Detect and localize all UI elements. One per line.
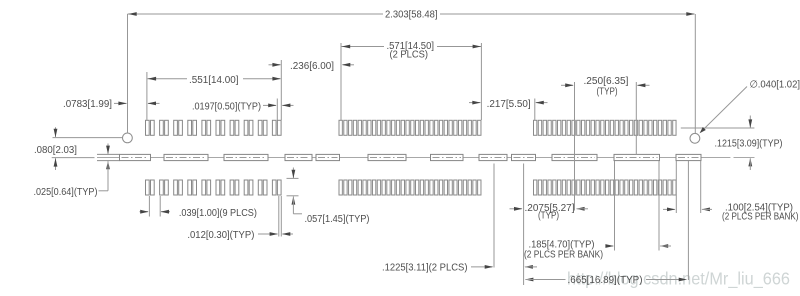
dimension .100[2.54] TYP 2 PLCS PER BANK bbox=[663, 161, 799, 223]
svg-text:.057[1.45](TYP): .057[1.45](TYP) bbox=[305, 214, 370, 225]
pad bank 3 bottom (30 pads) bbox=[534, 180, 677, 195]
wire right centerline extension bbox=[701, 157, 755, 159]
wire R9 center extension bbox=[523, 164, 525, 286]
dimension diameter .040[1.02] leader bbox=[700, 80, 800, 134]
pad bank 2 top (30 pads) bbox=[339, 120, 481, 135]
dimension .080[2.03] bbox=[34, 127, 95, 170]
svg-text:.0783[1.99]: .0783[1.99] bbox=[63, 99, 112, 110]
svg-text:.012[0.30](TYP): .012[0.30](TYP) bbox=[187, 230, 254, 241]
wire hole leader left bbox=[53, 137, 123, 139]
svg-text:.039[1.00](9 PLCS): .039[1.00](9 PLCS) bbox=[179, 208, 257, 219]
dimension .250[6.35] TYP bbox=[561, 76, 650, 210]
dimension .1215[3.09] TYP bbox=[715, 116, 783, 171]
dimension .0783[1.99] bbox=[63, 99, 160, 110]
svg-text:.236[6.00]: .236[6.00] bbox=[290, 61, 334, 72]
strip segment S6 bbox=[368, 154, 406, 160]
svg-text:.1215[3.09](TYP): .1215[3.09](TYP) bbox=[715, 139, 783, 150]
strip segment S12 bbox=[676, 154, 701, 160]
svg-text:(2 PLCS): (2 PLCS) bbox=[390, 50, 429, 61]
pad bank 3 top (30 pads) bbox=[534, 120, 677, 135]
strip segment S1 bbox=[120, 154, 151, 160]
svg-text:∅.040[1.02]: ∅.040[1.02] bbox=[750, 80, 800, 91]
dimension .1225[3.11] 2 PLCS bbox=[382, 164, 537, 274]
svg-text:.025[0.64](TYP): .025[0.64](TYP) bbox=[34, 187, 98, 198]
svg-text:.0197[0.50](TYP): .0197[0.50](TYP) bbox=[192, 102, 261, 113]
svg-text:(2 PLCS PER BANK): (2 PLCS PER BANK) bbox=[722, 212, 799, 223]
dimension .665[16.89] TYP bbox=[525, 161, 689, 286]
datum hole left bbox=[123, 133, 133, 143]
dimension .057[1.45] TYP bbox=[287, 168, 370, 226]
svg-text:(TYP): (TYP) bbox=[597, 87, 618, 98]
svg-text:.1225[3.11](2 PLCS): .1225[3.11](2 PLCS) bbox=[382, 262, 468, 273]
pad bank 1 top (10 pad pairs) bbox=[146, 120, 282, 135]
pad bank 2 bottom (30 pads) bbox=[339, 180, 481, 195]
wire strip centerline bbox=[97, 157, 700, 159]
dimension .039[1.00] 9 PLCS bbox=[140, 196, 257, 219]
strip segment S4 bbox=[285, 154, 312, 160]
svg-text:2.303[58.48]: 2.303[58.48] bbox=[385, 10, 438, 21]
strip segment S9 bbox=[512, 154, 536, 160]
strip segment S10 bbox=[552, 154, 597, 160]
strip segment S3 bbox=[224, 154, 268, 160]
pad bank 1 bottom (10 pad pairs) bbox=[146, 180, 282, 195]
strip segment S7 bbox=[431, 154, 464, 160]
dimension .0197[0.50] TYP bbox=[192, 99, 294, 121]
strip segment S8 bbox=[479, 154, 507, 160]
svg-text:.665[16.89](TYP): .665[16.89](TYP) bbox=[568, 275, 643, 286]
strip segment S2 bbox=[164, 154, 208, 160]
svg-text:.217[5.50]: .217[5.50] bbox=[487, 99, 531, 110]
dimension .236[6.00] bbox=[269, 61, 355, 72]
svg-text:.080[2.03]: .080[2.03] bbox=[34, 145, 77, 156]
dimension .185[4.70] TYP 2 PLCS PER BANK bbox=[524, 161, 671, 260]
wire left strip stub bbox=[97, 154, 120, 160]
svg-text:.551[14.00]: .551[14.00] bbox=[189, 75, 239, 86]
svg-text:(2 PLCS PER BANK): (2 PLCS PER BANK) bbox=[524, 249, 603, 260]
dimension .025[0.64] TYP bbox=[34, 144, 110, 199]
dimension .571[14.50] 2 PLCS bbox=[341, 41, 482, 120]
dimension .551[14.00] bbox=[147, 60, 281, 120]
datum hole right bbox=[690, 133, 700, 143]
dimension 2.303[58.48] bbox=[128, 10, 696, 133]
dimension .2075[5.27] TYP bbox=[510, 203, 589, 222]
strip segment S11 bbox=[614, 154, 660, 160]
dimension .217[5.50] bbox=[469, 99, 548, 121]
dimension .012[0.30] TYP bbox=[187, 196, 293, 241]
svg-text:(TYP): (TYP) bbox=[538, 211, 559, 222]
strip segment S5 bbox=[316, 154, 340, 160]
wire pad-center line right bbox=[681, 127, 755, 129]
